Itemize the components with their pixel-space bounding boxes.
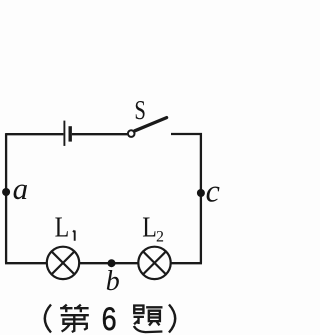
wire bottom left (corner to lamp L1) (5, 262, 46, 264)
battery B1 positive plate (long) (63, 121, 65, 146)
node c (197, 189, 205, 197)
lamp L2 circle (138, 247, 170, 279)
switch S pivot circle (128, 130, 135, 137)
svg-text:6: 6 (102, 301, 117, 335)
caption character 第 (60, 305, 89, 332)
node c label (206, 173, 220, 209)
lamp L2 label (142, 212, 164, 246)
svg-text:L: L (55, 212, 70, 244)
wire battery to switch (72, 133, 127, 135)
caption character 题 (134, 306, 163, 333)
svg-text:S: S (134, 95, 146, 125)
switch S blade (open) (135, 118, 167, 131)
battery B1 negative plate (short thick) (68, 126, 71, 141)
node b (108, 259, 116, 267)
caption close paren ） (169, 305, 175, 333)
wire right vertical (c branch) (200, 133, 202, 263)
wire top-left horizontal (corner to battery) (6, 133, 63, 135)
svg-text:c: c (206, 173, 220, 209)
node a (2, 188, 10, 196)
svg-text:2: 2 (156, 229, 164, 246)
switch label S (134, 95, 146, 125)
lamp L1 cross (52, 251, 75, 274)
lamp L1 circle (47, 247, 79, 279)
svg-text:a: a (13, 171, 29, 206)
node a label (13, 171, 29, 206)
wire lamp L1 to lamp L2 (79, 262, 139, 264)
svg-text:b: b (106, 266, 120, 297)
wire left vertical (a branch) (5, 133, 7, 263)
caption digit 6 (102, 301, 117, 335)
node b label (106, 266, 120, 297)
lamp L2 cross (143, 251, 166, 274)
wire switch to top-right corner (171, 133, 202, 135)
svg-text:L: L (142, 212, 157, 244)
wire lamp L2 to bottom-right corner (170, 262, 202, 264)
caption open paren （ (45, 305, 51, 333)
lamp L1 label (55, 212, 75, 244)
